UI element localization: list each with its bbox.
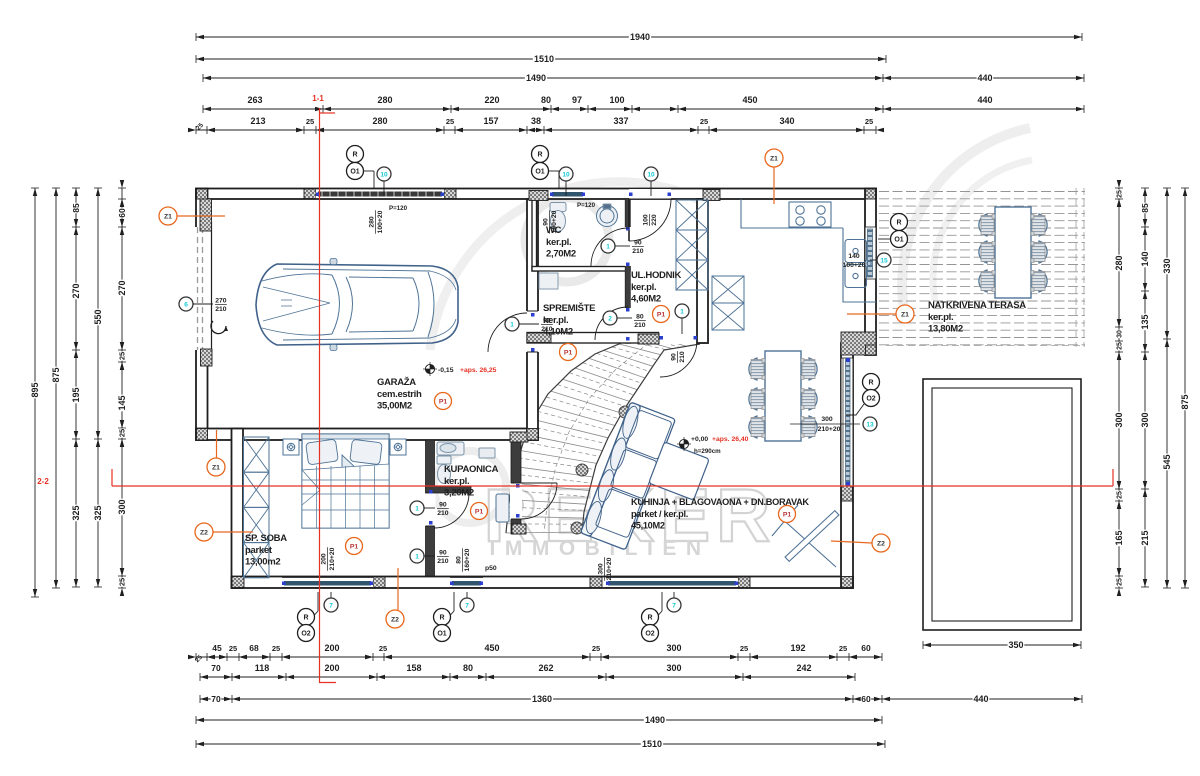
- svg-text:6: 6: [184, 301, 188, 308]
- svg-text:30: 30: [1117, 330, 1124, 338]
- svg-text:p50: p50: [485, 565, 497, 572]
- svg-text:SPREMIŠTE: SPREMIŠTE: [543, 302, 595, 314]
- svg-text:45: 45: [212, 643, 222, 653]
- svg-text:P1: P1: [439, 398, 448, 405]
- svg-text:Z1: Z1: [212, 464, 220, 471]
- svg-text:O2: O2: [866, 396, 875, 403]
- svg-text:210: 210: [632, 248, 644, 255]
- svg-text:1: 1: [606, 243, 610, 250]
- svg-text:165: 165: [1114, 530, 1124, 545]
- svg-text:100: 100: [609, 95, 624, 105]
- svg-text:270: 270: [117, 280, 127, 295]
- svg-text:R: R: [352, 152, 357, 159]
- svg-text:100+20: 100+20: [377, 210, 384, 233]
- svg-text:242: 242: [796, 663, 811, 673]
- svg-text:ker.pl.: ker.pl.: [546, 237, 571, 248]
- svg-text:2,70M2: 2,70M2: [546, 249, 576, 260]
- svg-text:140: 140: [1140, 251, 1150, 266]
- svg-text:875: 875: [1180, 394, 1190, 409]
- svg-text:P1: P1: [564, 349, 573, 356]
- svg-text:300: 300: [1114, 412, 1124, 427]
- svg-text:10: 10: [562, 171, 570, 178]
- svg-text:200: 200: [324, 643, 339, 653]
- svg-text:70: 70: [211, 694, 221, 704]
- svg-text:25: 25: [306, 117, 314, 126]
- svg-text:200: 200: [321, 553, 328, 565]
- svg-text:25: 25: [379, 644, 387, 653]
- svg-text:90: 90: [634, 240, 642, 247]
- svg-text:25: 25: [229, 644, 237, 653]
- svg-text:157: 157: [483, 116, 498, 126]
- svg-text:1510: 1510: [534, 54, 554, 64]
- svg-text:O1: O1: [535, 169, 544, 176]
- svg-text:R: R: [537, 152, 542, 159]
- svg-text:68: 68: [249, 643, 259, 653]
- svg-text:280: 280: [372, 116, 387, 126]
- svg-text:Z1: Z1: [770, 155, 778, 162]
- svg-text:R: R: [896, 220, 901, 227]
- svg-text:h=290cm: h=290cm: [694, 448, 721, 455]
- svg-text:210: 210: [634, 322, 646, 329]
- svg-text:280: 280: [1114, 255, 1124, 270]
- svg-text:parket: parket: [245, 545, 273, 556]
- svg-text:KUHINJA + BLAGOVAONA + DN.BORA: KUHINJA + BLAGOVAONA + DN.BORAVAK: [631, 497, 809, 507]
- svg-text:1940: 1940: [630, 32, 650, 42]
- svg-text:O2: O2: [301, 631, 310, 638]
- svg-text:875: 875: [51, 367, 61, 382]
- svg-text:O2: O2: [645, 631, 654, 638]
- svg-text:35,00M2: 35,00M2: [377, 401, 412, 412]
- svg-text:ker.pl.: ker.pl.: [444, 476, 469, 487]
- svg-text:262: 262: [538, 663, 553, 673]
- svg-text:350: 350: [1008, 640, 1023, 650]
- svg-text:70: 70: [211, 663, 221, 673]
- svg-text:300: 300: [821, 416, 833, 423]
- svg-text:13,80M2: 13,80M2: [928, 324, 963, 335]
- svg-text:P1: P1: [783, 511, 792, 518]
- svg-text:2: 2: [608, 315, 612, 322]
- svg-text:25: 25: [1117, 491, 1124, 499]
- svg-text:60: 60: [861, 643, 871, 653]
- svg-text:270: 270: [215, 298, 227, 305]
- svg-text:Z2: Z2: [391, 616, 399, 623]
- svg-text:25: 25: [446, 117, 454, 126]
- svg-text:280: 280: [369, 216, 376, 228]
- svg-text:300: 300: [666, 663, 681, 673]
- svg-text:KUPAONICA: KUPAONICA: [444, 464, 499, 475]
- svg-text:550: 550: [93, 309, 103, 324]
- svg-text:1510: 1510: [642, 739, 662, 749]
- svg-text:10: 10: [647, 171, 655, 178]
- svg-text:340: 340: [779, 116, 794, 126]
- svg-text:100: 100: [643, 214, 650, 226]
- svg-text:+aps. 26,40: +aps. 26,40: [712, 436, 749, 443]
- svg-text:parket / ker.pl.: parket / ker.pl.: [631, 509, 688, 519]
- svg-text:85: 85: [71, 203, 81, 213]
- svg-text:220: 220: [484, 95, 499, 105]
- svg-text:135: 135: [1140, 314, 1150, 329]
- svg-text:80: 80: [541, 95, 551, 105]
- svg-text:4,60M2: 4,60M2: [631, 294, 661, 305]
- svg-text:25: 25: [1117, 578, 1124, 586]
- svg-text:R: R: [439, 615, 444, 622]
- svg-text:160+20: 160+20: [464, 548, 471, 571]
- svg-text:300: 300: [666, 643, 681, 653]
- svg-text:25: 25: [740, 644, 748, 653]
- svg-text:210+20: 210+20: [329, 547, 336, 570]
- svg-text:1: 1: [415, 553, 419, 560]
- svg-text:+aps. 26,25: +aps. 26,25: [460, 367, 497, 374]
- svg-text:210: 210: [215, 306, 227, 313]
- svg-text:100+20: 100+20: [843, 262, 866, 269]
- svg-text:80: 80: [456, 556, 463, 564]
- svg-text:325: 325: [71, 505, 81, 520]
- svg-text:13: 13: [866, 421, 874, 428]
- svg-text:450: 450: [484, 643, 499, 653]
- svg-text:25: 25: [118, 429, 127, 437]
- svg-text:25: 25: [592, 644, 600, 653]
- svg-text:15: 15: [880, 257, 888, 264]
- svg-text:210: 210: [679, 351, 686, 363]
- svg-text:+0,00: +0,00: [691, 436, 708, 443]
- svg-text:280: 280: [377, 95, 392, 105]
- svg-text:R: R: [868, 380, 873, 387]
- svg-text:330: 330: [1162, 258, 1172, 273]
- svg-text:ker.pl.: ker.pl.: [631, 282, 656, 293]
- svg-text:80: 80: [463, 663, 473, 673]
- svg-text:Z1: Z1: [164, 213, 172, 220]
- svg-text:P1: P1: [657, 311, 666, 318]
- svg-text:25: 25: [1117, 342, 1124, 350]
- svg-text:25: 25: [865, 117, 873, 126]
- svg-text:210: 210: [437, 510, 449, 517]
- svg-text:300: 300: [1140, 412, 1150, 427]
- svg-text:215: 215: [1140, 530, 1150, 545]
- svg-text:1360: 1360: [532, 694, 552, 704]
- svg-text:200: 200: [324, 663, 339, 673]
- svg-text:220: 220: [651, 214, 658, 226]
- svg-text:Z2: Z2: [200, 529, 208, 536]
- svg-text:-0,15: -0,15: [438, 367, 454, 374]
- svg-text:UL.HODNIK: UL.HODNIK: [631, 270, 682, 281]
- svg-text:263: 263: [247, 95, 262, 105]
- svg-text:210: 210: [541, 326, 553, 333]
- svg-text:R: R: [303, 615, 308, 622]
- svg-text:R: R: [647, 615, 652, 622]
- svg-text:325: 325: [93, 505, 103, 520]
- svg-text:25: 25: [118, 352, 127, 360]
- svg-text:25: 25: [839, 644, 847, 653]
- svg-text:90: 90: [543, 318, 551, 325]
- svg-text:895: 895: [30, 382, 40, 397]
- svg-text:O1: O1: [350, 169, 359, 176]
- svg-text:NATKRIVENA TERASA: NATKRIVENA TERASA: [928, 300, 1026, 311]
- svg-text:210+20: 210+20: [606, 557, 613, 580]
- svg-text:195: 195: [71, 387, 81, 402]
- svg-text:158: 158: [406, 663, 421, 673]
- svg-text:2-2: 2-2: [37, 477, 49, 486]
- svg-text:450: 450: [742, 95, 757, 105]
- svg-text:25: 25: [272, 644, 280, 653]
- svg-text:1: 1: [680, 308, 684, 315]
- svg-text:O1: O1: [894, 237, 903, 244]
- svg-text:1: 1: [510, 321, 514, 328]
- svg-text:140: 140: [848, 253, 860, 260]
- svg-text:3,20M2: 3,20M2: [444, 488, 474, 499]
- svg-text:ker.pl.: ker.pl.: [928, 312, 953, 323]
- svg-text:60: 60: [117, 208, 127, 218]
- svg-text:100+20: 100+20: [551, 210, 558, 233]
- svg-text:270: 270: [71, 283, 81, 298]
- svg-text:P1: P1: [475, 508, 484, 515]
- svg-text:7: 7: [672, 602, 676, 609]
- svg-text:25: 25: [1117, 190, 1124, 198]
- svg-text:cem.estrih: cem.estrih: [377, 389, 422, 400]
- svg-text:1: 1: [415, 505, 419, 512]
- svg-text:O1: O1: [437, 631, 446, 638]
- svg-text:Z1: Z1: [901, 311, 909, 318]
- svg-text:P=120: P=120: [577, 202, 596, 209]
- svg-text:38: 38: [531, 116, 541, 126]
- svg-text:213: 213: [250, 116, 265, 126]
- svg-text:10: 10: [380, 171, 388, 178]
- svg-text:P=120: P=120: [389, 205, 408, 212]
- svg-text:1490: 1490: [645, 715, 665, 725]
- svg-text:1490: 1490: [526, 73, 546, 83]
- svg-text:192: 192: [790, 643, 805, 653]
- svg-text:Z2: Z2: [877, 540, 885, 547]
- svg-text:210: 210: [437, 558, 449, 565]
- svg-text:85: 85: [1140, 203, 1150, 213]
- svg-text:545: 545: [1162, 454, 1172, 469]
- svg-text:440: 440: [977, 73, 992, 83]
- svg-text:90: 90: [439, 550, 447, 557]
- svg-text:60: 60: [861, 694, 871, 704]
- svg-text:7: 7: [465, 602, 469, 609]
- svg-text:118: 118: [255, 663, 270, 673]
- svg-text:80: 80: [636, 314, 644, 321]
- svg-text:SP. SOBA: SP. SOBA: [245, 533, 287, 544]
- svg-text:1-1: 1-1: [312, 94, 324, 103]
- svg-text:440: 440: [977, 95, 992, 105]
- svg-text:25: 25: [118, 578, 127, 586]
- svg-text:97: 97: [572, 95, 582, 105]
- svg-text:90: 90: [439, 502, 447, 509]
- svg-text:7: 7: [329, 602, 333, 609]
- svg-text:300: 300: [598, 563, 605, 575]
- svg-text:25: 25: [700, 117, 708, 126]
- svg-text:GARAŽA: GARAŽA: [377, 376, 416, 388]
- svg-text:145: 145: [117, 395, 127, 410]
- svg-text:300: 300: [117, 499, 127, 514]
- svg-text:45,10M2: 45,10M2: [631, 521, 665, 531]
- svg-text:13,00m2: 13,00m2: [245, 557, 280, 568]
- svg-text:90: 90: [543, 218, 550, 226]
- svg-text:P1: P1: [350, 543, 359, 550]
- svg-text:90: 90: [671, 353, 678, 361]
- svg-text:210+20: 210+20: [818, 426, 841, 433]
- svg-text:337: 337: [613, 116, 628, 126]
- svg-text:440: 440: [973, 694, 988, 704]
